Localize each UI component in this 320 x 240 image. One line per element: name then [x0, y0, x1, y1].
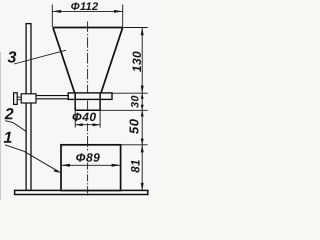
ext line y144.4 right [121, 144, 148, 146]
svg-text:Φ89: Φ89 [76, 151, 101, 165]
base plate [15, 190, 148, 194]
arrow 81 top (up) [141, 145, 144, 153]
arrow 81 bottom (down) [141, 183, 144, 191]
dim Ф89 line [61, 164, 121, 166]
svg-text:2: 2 [4, 106, 14, 123]
svg-text:81: 81 [131, 159, 143, 172]
dim Ф112 line [52, 10, 122, 12]
dim Ф40 extension left [74, 111, 76, 128]
dim Ф112 arrow right [114, 10, 123, 13]
centerline segment below Ф89 text [87, 163, 89, 196]
funnel spout [75, 93, 101, 110]
clamp knob [14, 93, 18, 105]
label 1 leader arrow [54, 169, 61, 173]
stand post (item 2) [26, 24, 31, 191]
dim Ф112 extension right [122, 5, 124, 28]
clamp block [21, 94, 36, 103]
label 3 leader [14, 50, 66, 64]
centerline (axis) [87, 22, 89, 111]
support arm [36, 95, 68, 97]
clamp stem [17, 96, 21, 98]
ext line y93.2 right [112, 92, 147, 94]
right chain vertical dimension line [141, 28, 143, 191]
dim Ф40 line [75, 124, 100, 126]
svg-text:130: 130 [130, 51, 144, 72]
dim Ф40 arrow left [75, 123, 83, 126]
dim Ф40 extension right [99, 111, 101, 128]
arrow 50 top (up) [141, 110, 144, 116]
svg-text:1: 1 [4, 130, 13, 147]
svg-text:Φ40: Φ40 [72, 110, 97, 124]
arrow 50 bottom (down) [141, 139, 144, 145]
scan edge line left [0, 52, 2, 200]
funnel body (item 3) [53, 28, 123, 93]
svg-text:50: 50 [126, 118, 141, 134]
label 2 leader [5, 121, 26, 132]
dim Ф89 arrow left [61, 164, 70, 167]
dim Ф112 arrow left [52, 10, 61, 13]
arrow 30 top (up) [141, 93, 144, 99]
dim Ф112 extension left [51, 5, 53, 28]
arrow 130 bottom (down) [141, 86, 144, 94]
svg-text:Φ112: Φ112 [71, 1, 99, 13]
cylinder mould (item 1) [61, 145, 121, 191]
funnel flange [68, 93, 112, 100]
ext line y110.3 right [100, 109, 148, 111]
svg-text:3: 3 [8, 49, 17, 66]
dim Ф89 arrow right [112, 164, 121, 167]
ext line y27.5 right [124, 27, 148, 29]
centerline segment below Ф40 text [87, 123, 89, 150]
arrow 130 top (up) [141, 28, 144, 36]
arrow 30 bottom (down) [141, 105, 144, 111]
dim Ф40 arrow right [93, 123, 101, 126]
svg-text:30: 30 [130, 95, 142, 108]
label 1 leader [5, 145, 60, 172]
